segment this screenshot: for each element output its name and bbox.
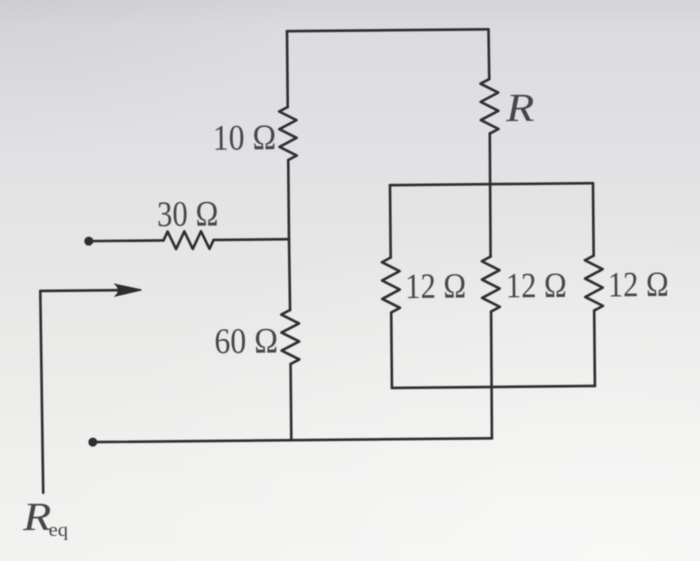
- resistor 60-ohm zigzag: [281, 310, 299, 364]
- svg-text:12 Ω: 12 Ω: [608, 264, 669, 305]
- resistor 12-ohm left zigzag: [382, 257, 400, 312]
- wire 30-ohm lead left: [89, 239, 164, 242]
- resistor 12-ohm middle zigzag: [482, 256, 500, 311]
- wire box right upper: [592, 183, 595, 255]
- svg-text:R: R: [22, 495, 52, 540]
- wire left branch lower: [289, 238, 290, 310]
- svg-text:60 Ω: 60 Ω: [214, 321, 278, 362]
- svg-text:10 Ω: 10 Ω: [213, 117, 277, 158]
- svg-text:eq: eq: [48, 520, 68, 541]
- wire top horizontal: [287, 29, 488, 31]
- wire right branch middle: [489, 134, 491, 257]
- wire left branch middle: [287, 160, 290, 238]
- wire left branch bottom: [289, 364, 292, 440]
- svg-text:12 Ω: 12 Ω: [405, 266, 466, 307]
- label R: [505, 86, 535, 131]
- wire box top horizontal: [390, 183, 593, 185]
- resistor 10-ohm zigzag: [279, 107, 297, 160]
- wire left branch upper: [286, 31, 289, 107]
- svg-text:12 Ω: 12 Ω: [506, 265, 567, 306]
- node terminal dot upper: [84, 237, 93, 246]
- wire 30-ohm lead right: [214, 238, 289, 241]
- wire bottom horizontal: [93, 438, 492, 442]
- wire right branch lower: [491, 312, 493, 439]
- wire Req arrow horizontal: [40, 289, 118, 292]
- resistor 30-ohm zigzag: [163, 231, 213, 249]
- wire Req arrow vertical: [40, 291, 43, 493]
- wire box right lower: [593, 311, 596, 386]
- wire box left upper: [389, 185, 392, 257]
- node terminal dot lower: [88, 438, 97, 447]
- wire box bottom horizontal: [392, 386, 595, 388]
- wire box left lower: [390, 313, 393, 388]
- wire right branch upper: [487, 29, 490, 79]
- svg-text:30 Ω: 30 Ω: [157, 193, 219, 234]
- arrowhead of Req arrow: [115, 284, 141, 296]
- label Req: [22, 495, 52, 540]
- svg-text:R: R: [505, 86, 535, 131]
- resistor R zigzag: [480, 79, 498, 134]
- resistor 12-ohm right zigzag: [585, 256, 603, 311]
